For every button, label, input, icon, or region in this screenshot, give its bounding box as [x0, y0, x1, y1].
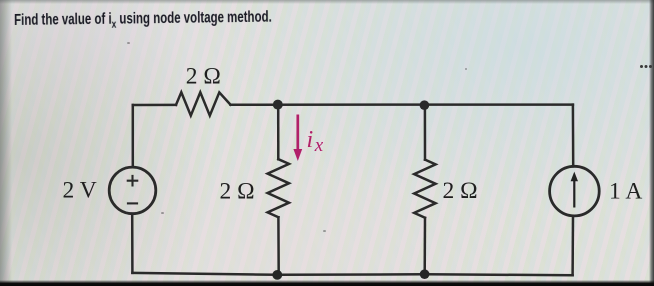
label ix (magenta) — [307, 127, 324, 156]
value labels — [63, 64, 643, 205]
wire middle branch lower — [277, 217, 280, 275]
svg-text:2 V: 2 V — [63, 178, 97, 204]
svg-text:i: i — [307, 127, 314, 153]
wire right branch upper — [572, 105, 575, 167]
svg-text:2 Ω: 2 Ω — [220, 179, 255, 205]
wire left branch upper — [132, 105, 135, 167]
wire top right segment — [231, 103, 573, 106]
V1 minus sign — [127, 202, 138, 204]
wire right-mid branch upper — [424, 105, 427, 159]
node d (bottom right junction dot) — [420, 269, 430, 279]
wire right-mid branch lower — [423, 218, 426, 275]
current source I1 circle — [550, 166, 600, 216]
I1 arrow — [571, 172, 578, 208]
svg-text:x: x — [314, 135, 324, 156]
resistor R3 (right vertical) — [414, 160, 435, 218]
wire bottom — [132, 273, 572, 275]
svg-text:1 A: 1 A — [609, 179, 642, 205]
node b (top right junction dot) — [420, 100, 430, 110]
resistor R1 (top horizontal, 2 ohm) — [176, 92, 231, 115]
voltage source V1 circle — [109, 167, 156, 214]
svg-text:2 Ω: 2 Ω — [443, 178, 478, 204]
wire right branch lower — [571, 216, 574, 275]
node c (bottom middle junction dot) — [272, 270, 282, 280]
wire top left segment — [133, 104, 176, 107]
V1 plus sign — [127, 175, 139, 187]
wire middle branch upper — [277, 105, 280, 160]
resistor R2 (middle vertical) — [268, 159, 289, 217]
current arrow ix (magenta) — [293, 115, 302, 162]
svg-text:2 Ω: 2 Ω — [186, 64, 221, 90]
wire left branch lower — [131, 214, 134, 273]
node a (top middle junction dot) — [273, 100, 283, 110]
